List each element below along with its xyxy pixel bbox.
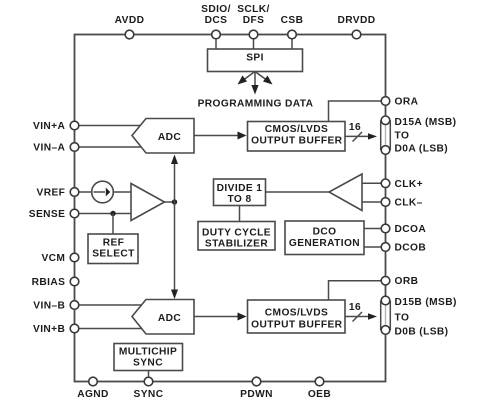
reference current source [92, 181, 114, 203]
op-amp reference buffer [131, 184, 165, 221]
pin DCOA [381, 224, 390, 233]
svg-text:TO: TO [395, 131, 410, 142]
bus A wire [345, 135, 370, 137]
pin VREF [70, 188, 79, 197]
node SENSE junction [110, 211, 115, 216]
svg-text:VIN+B: VIN+B [33, 324, 65, 335]
pin RBIAS [70, 277, 79, 286]
svg-text:ADC: ADC [158, 313, 182, 324]
svg-text:SDIO/: SDIO/ [201, 4, 231, 15]
wire VIN+A to ADC A [78, 125, 143, 127]
pin CLK- [381, 198, 390, 207]
svg-text:DFS: DFS [243, 15, 265, 26]
svg-text:CMOS/LVDS: CMOS/LVDS [265, 124, 328, 135]
wire CLK- [362, 201, 382, 203]
wire ORA [329, 101, 382, 122]
svg-text:SYNC: SYNC [134, 389, 164, 400]
svg-text:DIVIDE 1: DIVIDE 1 [217, 183, 263, 194]
wire DCOB [364, 246, 382, 248]
ADC U2 channel B [132, 300, 194, 335]
CMOS/LVDS output buffer A [248, 122, 346, 152]
svg-text:SPI: SPI [246, 53, 264, 64]
wire clock to divider [266, 191, 330, 193]
svg-text:OUTPUT BUFFER: OUTPUT BUFFER [251, 135, 342, 146]
svg-text:D15A (MSB): D15A (MSB) [395, 117, 457, 128]
pin AGND [89, 377, 98, 386]
svg-text:CLK+: CLK+ [395, 179, 424, 190]
wire VIN+B to ADC B [78, 328, 143, 330]
svg-text:ADC: ADC [158, 132, 182, 143]
svg-text:AVDD: AVDD [115, 15, 145, 26]
bus A width slash [353, 132, 363, 142]
svg-text:TO 8: TO 8 [227, 194, 251, 205]
svg-text:D15B (MSB): D15B (MSB) [395, 297, 457, 308]
svg-text:DCS: DCS [205, 15, 228, 26]
svg-text:DCO: DCO [313, 227, 337, 238]
svg-text:TO: TO [395, 312, 410, 323]
MULTICHIP SYNC box [114, 344, 183, 371]
svg-text:CMOS/LVDS: CMOS/LVDS [265, 307, 328, 318]
pin SENSE [70, 209, 79, 218]
pin CLK+ [381, 179, 390, 188]
clock receiver triangle [329, 174, 362, 211]
svg-text:MULTICHIP: MULTICHIP [119, 346, 177, 357]
wire source to ref buffer [113, 191, 131, 193]
svg-text:16: 16 [349, 302, 361, 313]
svg-text:VIN–A: VIN–A [33, 143, 65, 154]
svg-text:DUTY CYCLE: DUTY CYCLE [202, 227, 271, 238]
wire CLK+ [362, 182, 382, 184]
ADC U1 channel A [132, 119, 194, 154]
DUTY CYCLE STABILIZER box [198, 222, 275, 251]
wire ORB [329, 281, 382, 300]
svg-text:ORB: ORB [395, 276, 419, 287]
pin DRVDD [352, 30, 361, 39]
svg-text:GENERATION: GENERATION [289, 238, 360, 249]
node reference bus junction [172, 199, 177, 204]
SPI block [208, 49, 303, 72]
svg-text:SCLK/: SCLK/ [237, 4, 270, 15]
svg-text:SYNC: SYNC [133, 357, 163, 368]
svg-text:DCOB: DCOB [395, 243, 427, 254]
DIVIDE 1 TO 8 box [214, 179, 266, 206]
wire ADC A to output buffer A [194, 135, 240, 137]
DCO GENERATION box [285, 221, 364, 255]
pin SCLK/DFS [249, 30, 258, 39]
pin ORB [381, 276, 390, 285]
svg-text:16: 16 [349, 122, 361, 133]
svg-text:STABILIZER: STABILIZER [205, 239, 268, 250]
pin ORA [381, 97, 390, 106]
bus B wire [345, 316, 370, 318]
pin VIN+B [70, 324, 79, 333]
svg-text:VREF: VREF [37, 188, 66, 199]
wire SDIO stub [215, 38, 217, 49]
svg-text:D0B (LSB): D0B (LSB) [395, 327, 449, 338]
svg-text:VIN+A: VIN+A [33, 121, 66, 132]
svg-text:DRVDD: DRVDD [337, 15, 375, 26]
svg-text:AGND: AGND [77, 389, 109, 400]
pin SDIO/DCS [212, 30, 221, 39]
pin DCOB [381, 243, 390, 252]
wire CSB stub [291, 38, 293, 49]
REF SELECT box [88, 234, 138, 264]
svg-text:OUTPUT BUFFER: OUTPUT BUFFER [251, 319, 342, 330]
pin VIN+A [70, 121, 79, 130]
svg-text:CLK–: CLK– [395, 198, 423, 209]
svg-text:PDWN: PDWN [240, 389, 273, 400]
wire reference bus [174, 157, 176, 297]
pin SYNC [144, 377, 153, 386]
bus B width slash [353, 312, 363, 322]
svg-text:SELECT: SELECT [92, 248, 135, 259]
bus A pin capsule D15A-D0A [381, 119, 390, 151]
wire SYNC stub [148, 371, 150, 378]
svg-text:REF: REF [103, 237, 125, 248]
svg-text:VCM: VCM [41, 253, 65, 264]
svg-text:D0A (LSB): D0A (LSB) [395, 143, 449, 154]
wire VIN-A to ADC A [78, 146, 143, 148]
pin OEB [315, 377, 324, 386]
CMOS/LVDS output buffer B [248, 300, 346, 333]
svg-text:CSB: CSB [281, 15, 304, 26]
pin AVDD [125, 30, 134, 39]
pin PDWN [252, 377, 261, 386]
wire VIN-B to ADC B [78, 304, 143, 306]
svg-text:RBIAS: RBIAS [32, 277, 66, 288]
chip boundary box [75, 35, 386, 382]
svg-text:OEB: OEB [308, 389, 331, 400]
wire VREF to reference source [78, 191, 92, 193]
pin VIN-A [70, 143, 79, 152]
pin VIN-B [70, 301, 79, 310]
wire SENSE to ref buffer [78, 213, 131, 215]
svg-text:VIN–B: VIN–B [33, 301, 65, 312]
svg-text:ORA: ORA [395, 97, 419, 108]
svg-text:PROGRAMMING DATA: PROGRAMMING DATA [198, 99, 314, 110]
pin CSB [288, 30, 297, 39]
programming data arrows [238, 72, 273, 95]
wire buffer output to reference bus [165, 201, 175, 203]
svg-text:DCOA: DCOA [395, 224, 427, 235]
wire DCOA [364, 228, 382, 230]
pin VCM [70, 253, 79, 262]
wire divider to duty cycle stabilizer [239, 206, 241, 222]
wire junction to REF SELECT [112, 214, 114, 235]
wire SCLK stub [253, 38, 255, 49]
svg-text:SENSE: SENSE [29, 209, 66, 220]
bus B pin capsule D15B-D0B [381, 299, 390, 331]
wire ADC B to output buffer B [194, 316, 240, 318]
